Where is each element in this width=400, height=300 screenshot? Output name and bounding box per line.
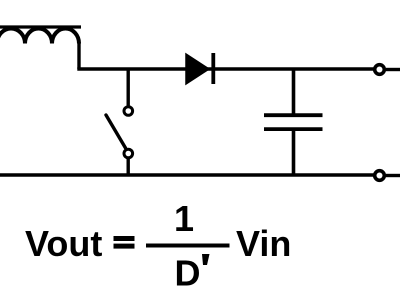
svg-text:1: 1	[174, 198, 194, 239]
wire switch upper stub	[126, 69, 129, 106]
switch SW1 upper contact	[124, 107, 133, 116]
wire capacitor top lead	[292, 69, 296, 115]
wire right of positive terminal	[386, 68, 400, 71]
svg-text:Vout: Vout	[25, 223, 102, 264]
equals sign upper bar	[114, 236, 135, 241]
wire switch lower stub	[126, 158, 129, 175]
switch SW1 lower contact	[124, 149, 133, 158]
equals sign lower bar	[114, 244, 135, 249]
wire bottom rail	[0, 173, 374, 177]
output terminal negative	[375, 171, 385, 181]
wire right of negative terminal	[386, 174, 400, 177]
diode D1 anode triangle	[186, 54, 209, 84]
wire top rail	[77, 67, 373, 71]
formula fraction bar	[146, 244, 230, 248]
inductor L1 winding arcs	[0, 29, 79, 44]
capacitor C1 top plate	[264, 113, 323, 117]
wire from inductor down to top rail	[77, 42, 80, 69]
formula prime mark on D	[202, 254, 210, 265]
output terminal positive	[375, 65, 385, 75]
svg-text:D: D	[175, 252, 201, 293]
inductor L1 top core bar	[0, 25, 81, 28]
wire capacitor bottom lead	[292, 130, 296, 176]
diode D1 cathode bar	[211, 53, 215, 84]
switch SW1 blade	[106, 115, 126, 148]
svg-text:Vin: Vin	[236, 223, 291, 264]
capacitor C1 bottom plate	[264, 127, 323, 131]
